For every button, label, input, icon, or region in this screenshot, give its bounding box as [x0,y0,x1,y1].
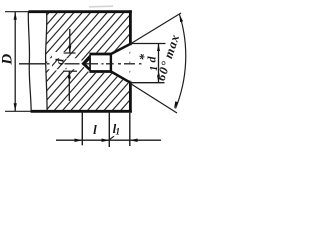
dimension D: dimension line with arrows [14,12,16,112]
dimension d1: extension lines [131,43,166,45]
hole centreline (dash-dot) [19,63,142,65]
hatching (section lines) [0,12,232,111]
dimension D: extension lines [5,11,29,13]
shaft outline: right face (lower segment) [129,82,132,113]
svg-text:D: D [0,54,15,66]
dimension d1: dimension line with arrows [158,44,160,83]
centre hole: countersink cone [111,44,130,54]
svg-text:*: * [136,54,151,61]
svg-text:l: l [93,122,97,137]
centre hole: cylindrical portion [89,53,111,56]
shaft outline: top edge [29,10,132,13]
dimension d: lower arrow and tick [68,72,70,102]
dimension l / l1: extension lines [81,112,83,145]
scan smudge top [89,5,113,8]
svg-text:d: d [53,58,67,65]
shaft break line right [46,12,48,112]
shaft outline: bottom edge [31,110,132,113]
shaft break line left [28,11,31,112]
centre hole: drill point (conical bottom) [81,53,91,72]
dimension l / l1: dimension line [56,139,161,141]
60 degree cone angle rays [130,13,181,44]
shaft outline: right face (upper segment) [129,10,132,45]
dimension d: upper arrow and tick [69,29,71,53]
svg-text:1: 1 [116,127,121,137]
angle arc with arrowheads [176,15,186,109]
